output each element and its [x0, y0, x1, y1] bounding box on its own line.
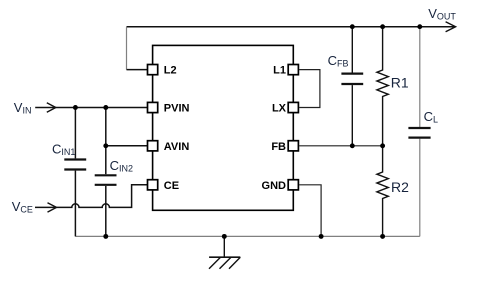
- svg-text:VOUT: VOUT: [428, 6, 456, 22]
- svg-text:CFB: CFB: [328, 53, 349, 69]
- svg-text:L1: L1: [273, 65, 286, 77]
- svg-text:CIN2: CIN2: [110, 158, 133, 174]
- svg-text:CIN1: CIN1: [52, 142, 75, 158]
- svg-text:LX: LX: [272, 103, 287, 115]
- svg-text:PVIN: PVIN: [164, 103, 190, 115]
- svg-text:CE: CE: [164, 180, 179, 192]
- svg-text:VCE: VCE: [12, 199, 33, 215]
- svg-text:GND: GND: [262, 180, 287, 192]
- svg-text:AVIN: AVIN: [164, 141, 190, 153]
- svg-text:R2: R2: [391, 179, 409, 195]
- svg-text:VIN: VIN: [14, 100, 32, 116]
- svg-text:L2: L2: [164, 65, 177, 77]
- svg-text:R1: R1: [391, 74, 409, 90]
- svg-text:CL: CL: [424, 109, 438, 125]
- svg-text:FB: FB: [271, 141, 286, 153]
